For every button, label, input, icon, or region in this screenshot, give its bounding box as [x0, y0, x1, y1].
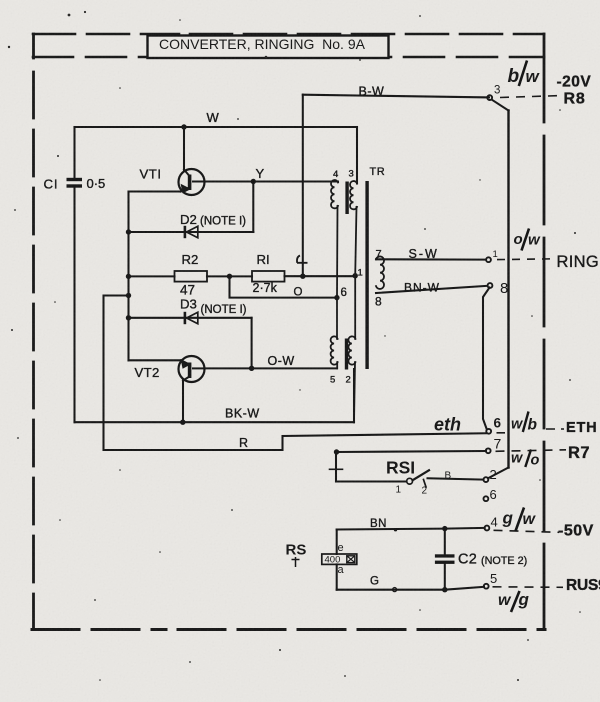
- handwritten w/b: [511, 412, 538, 434]
- terminal 7: [486, 448, 491, 453]
- wire Y: [205, 180, 339, 182]
- wire terminal 8 down to eth: [483, 288, 490, 429]
- wire BN: [337, 528, 485, 530]
- terminal 2: [484, 477, 489, 482]
- border top dashed: [33, 33, 544, 36]
- wire RS1 row: [336, 480, 406, 482]
- wire B-W: [303, 95, 489, 98]
- node rail branch junction: [126, 293, 131, 298]
- terminal 1 RING: [486, 257, 491, 262]
- wire W top: [75, 126, 358, 128]
- wire B-W vertical drop: [302, 95, 304, 277]
- handwritten RS arrow: [292, 557, 300, 567]
- wire W corner to winding 3: [356, 127, 358, 184]
- wire left rail: [127, 192, 129, 361]
- wire right riser vertical: [507, 111, 509, 468]
- wire R from left rail branch: [104, 296, 487, 451]
- resistor R2: [175, 271, 208, 282]
- wire VT2 emitter from rail: [129, 359, 182, 361]
- wire BN loop left corner: [336, 530, 338, 555]
- capacitor C2 branch: [444, 529, 446, 590]
- transformer TR primary right winding 3-1-2: [348, 181, 357, 422]
- title box: [148, 36, 389, 59]
- wire D2 branch vertical: [252, 182, 254, 233]
- border left dashed: [32, 34, 35, 629]
- transformer TR secondary winding 7-8: [376, 256, 384, 288]
- wire BN-W: [376, 286, 488, 293]
- wire C1 down to BK-W: [73, 188, 75, 422]
- transformer TR core bar lower: [345, 339, 348, 370]
- terminal 6 lower: [484, 496, 489, 501]
- leader dashes RING: [497, 258, 556, 261]
- wire O branch: [230, 276, 337, 297]
- wire D3 branch vertical: [251, 318, 253, 369]
- node Y junction: [251, 179, 256, 184]
- transformer TR primary left winding 4-6-5: [331, 180, 338, 368]
- diode D3: [184, 312, 198, 324]
- transistor VT2: [179, 356, 205, 382]
- node G-C2 junction: [442, 587, 447, 592]
- wire riser to terminal 3: [492, 100, 508, 111]
- leader dashes R7: [496, 450, 567, 452]
- leader dashes -20V/R8: [500, 96, 558, 98]
- border second top dashed: [33, 56, 544, 59]
- wire R2 left lead: [129, 275, 175, 277]
- node D3-OW junction: [249, 366, 254, 371]
- wire terminal 2 to vertical riser: [488, 468, 509, 479]
- terminal 8: [488, 283, 493, 288]
- node 1 junction: [353, 273, 358, 278]
- transformer TR main core: [365, 181, 368, 369]
- node BN small dot: [394, 528, 397, 531]
- node W junction: [181, 124, 186, 129]
- handwritten w/g: [498, 590, 530, 612]
- terminal 3: [487, 95, 492, 100]
- small circle on G wire: [393, 588, 397, 592]
- node terminal7 corner junction: [334, 449, 339, 454]
- switch RS1 fixed contact: [407, 478, 413, 484]
- wire VT1 collector: [183, 127, 185, 171]
- wire G: [337, 587, 484, 590]
- wire D2 row: [129, 231, 254, 233]
- tick on RS1 left leg: [330, 468, 343, 470]
- wire to terminal 7: [337, 451, 487, 452]
- transistor VT1: [179, 169, 205, 195]
- transformer TR core bar upper: [345, 182, 348, 215]
- leader dashes RUS: [493, 586, 564, 589]
- wire BK-W: [75, 421, 355, 423]
- resistor R1: [252, 271, 285, 282]
- leader dashes 50V: [494, 530, 560, 532]
- node R2 left junction: [126, 274, 131, 279]
- handwritten w/o: [511, 450, 540, 469]
- tick at contact 2: [424, 480, 427, 488]
- wire R2-R1 link: [207, 275, 252, 277]
- wire VT2 collector down: [182, 381, 184, 423]
- wire S-W: [376, 258, 486, 260]
- terminal 5: [484, 584, 489, 589]
- wire left drop to C1: [73, 127, 75, 178]
- border right dashed: [543, 34, 546, 629]
- node R2-R1 junction: [227, 274, 232, 279]
- wire O-W: [205, 367, 338, 369]
- leader dashes ETH: [497, 429, 565, 433]
- wire D3 row: [129, 317, 252, 319]
- node 6 junction: [334, 295, 339, 300]
- capacitor C2 plates: [435, 554, 455, 564]
- node D2 left junction: [126, 229, 131, 234]
- handwritten t mark on L wire: [297, 256, 308, 263]
- wire RS1 left leg: [335, 452, 337, 482]
- capacitor C1: [67, 178, 83, 188]
- diode D2: [184, 226, 198, 238]
- switch RS1 blade: [413, 470, 429, 480]
- handwritten o/w: [514, 229, 542, 251]
- wire pin2 lead up: [353, 369, 355, 422]
- resistor RS box: [322, 554, 357, 564]
- handwritten b/w: [508, 61, 541, 88]
- node L junction: [300, 274, 305, 279]
- border bottom dashed: [32, 628, 545, 631]
- node BN-C2 junction: [442, 526, 447, 531]
- handwritten g/w: [502, 508, 537, 532]
- node VT2-BKW junction: [180, 420, 185, 425]
- wire R1 right lead: [285, 275, 356, 277]
- wire VT1 emitter to left rail: [129, 190, 181, 192]
- wire RS to G corner: [336, 564, 338, 589]
- wire B to terminal 2: [428, 478, 484, 479]
- node D3 left junction: [126, 315, 131, 320]
- terminal 4: [485, 526, 490, 531]
- terminal 6 eth: [486, 429, 491, 434]
